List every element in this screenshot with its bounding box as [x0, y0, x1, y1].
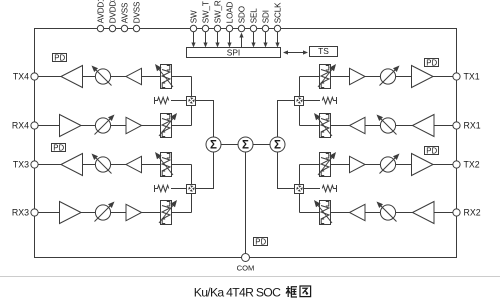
wire RX3 row [38, 212, 191, 214]
wire TX2 row [300, 164, 453, 166]
wire S2 to COM port [245, 152, 247, 254]
wire S1-S2 [221, 144, 238, 146]
svg-text:SPI: SPI [227, 48, 241, 58]
svg-text:Σ: Σ [242, 140, 249, 152]
svg-text:PD: PD [426, 59, 437, 68]
combiner TX3/RX3 [187, 185, 196, 194]
wire RX1 row [300, 125, 453, 127]
svg-text:TX1: TX1 [464, 72, 480, 82]
SPI pin SCLK [274, 25, 280, 31]
SPI pin SDO [238, 25, 244, 31]
caption CJK kuang [286, 286, 297, 297]
amplifier TX4 driver [126, 68, 142, 84]
phase shifter TX1 [320, 65, 331, 89]
wire TX4/RX4 to combiner [191, 77, 193, 126]
wire TX1/RX1 to combiner [299, 77, 301, 126]
wire TX3/RX3 to combiner [191, 165, 193, 213]
chip outline box [35, 29, 457, 258]
svg-text:DVDD33: DVDD33 [108, 0, 117, 23]
port TX3 [31, 161, 38, 168]
PD box TX2 [425, 147, 439, 155]
SPI pin SW_R [214, 25, 220, 31]
amplifier RX1 LNA [413, 115, 435, 137]
amplifier RX4 LNA [60, 115, 82, 137]
wire combiner to summer S1 lower [196, 152, 214, 189]
termination resistor TX2/RX2 [336, 185, 338, 192]
svg-text:DVSS: DVSS [132, 1, 141, 23]
svg-text:Σ: Σ [210, 140, 217, 152]
port COM [242, 254, 250, 262]
phase shifter RX2 [320, 201, 331, 225]
wire combiner to summer S3 lower [278, 152, 296, 189]
phase shifter RX4 [161, 114, 172, 138]
summer S2 [238, 137, 253, 152]
svg-text:RX1: RX1 [464, 121, 481, 131]
phase shifter RX3 [161, 201, 172, 225]
svg-text:LOAD: LOAD [225, 1, 234, 23]
svg-text:TS: TS [318, 46, 329, 56]
termination resistor TX4/RX4 [154, 97, 156, 104]
amplifier RX2 driver [350, 204, 366, 220]
PD box TX3 [52, 144, 66, 152]
SPI-TS bidirectional bus wire [287, 52, 304, 54]
svg-text:SDI: SDI [261, 10, 270, 23]
wire combiner to summer S3 upper [278, 101, 296, 138]
power pin DVDD33 [109, 25, 115, 31]
summer S3 [270, 137, 285, 152]
TS block [310, 47, 338, 57]
port RX3 [31, 209, 38, 216]
svg-text:SCLK: SCLK [273, 2, 282, 23]
svg-text:SW: SW [189, 10, 198, 23]
summer S1 [206, 137, 221, 152]
combiner TX4/RX4 [187, 97, 196, 106]
svg-text:AVSS: AVSS [120, 2, 129, 23]
amplifier RX3 LNA [60, 202, 82, 224]
port TX2 [453, 161, 460, 168]
wire TX2/RX2 to combiner [299, 165, 301, 213]
amplifier RX4 driver [126, 117, 142, 133]
SPI pin SW_T [202, 25, 208, 31]
amplifier TX3 driver [126, 156, 142, 172]
wire RX4 row [38, 125, 191, 127]
amplifier TX2 output PA [412, 154, 434, 176]
variable attenuator RX1 [380, 118, 395, 133]
wire S2-S3 [253, 144, 270, 146]
svg-text:PD: PD [426, 147, 437, 156]
variable attenuator RX4 [95, 118, 110, 133]
port RX2 [453, 209, 460, 216]
port RX1 [453, 122, 460, 129]
svg-text:SDO: SDO [237, 6, 246, 23]
svg-text:RX4: RX4 [12, 121, 29, 131]
power pin AVDD18 [97, 25, 103, 31]
SPI pin SEL [250, 25, 256, 31]
caption CJK tu [300, 286, 311, 297]
wire TX1 row [300, 76, 453, 78]
power pin AVSS [121, 25, 127, 31]
wire TX3 row [38, 164, 191, 166]
svg-text:PD: PD [53, 144, 64, 153]
svg-text:SW_R: SW_R [213, 0, 222, 23]
phase shifter TX2 [320, 153, 331, 177]
SPI block U1 [187, 48, 281, 58]
variable attenuator RX2 [380, 205, 395, 220]
PD box common [254, 238, 268, 246]
svg-text:SEL: SEL [249, 8, 258, 23]
PD box TX1 [425, 59, 439, 67]
amplifier TX3 output PA [61, 154, 83, 176]
svg-text:SW_T: SW_T [201, 1, 210, 23]
amplifier RX2 LNA [413, 202, 435, 224]
amplifier TX1 output PA [412, 66, 434, 88]
port RX4 [31, 122, 38, 129]
svg-text:TX3: TX3 [13, 160, 29, 170]
wire combiner to summer S1 upper [196, 101, 214, 138]
combiner TX2/RX2 [295, 185, 304, 194]
PD box TX4 [53, 54, 67, 62]
svg-text:Σ: Σ [274, 140, 281, 152]
amplifier RX1 driver [350, 117, 366, 133]
SPI pin LOAD [226, 25, 232, 31]
variable attenuator TX3 [95, 157, 110, 172]
svg-text:Ku/Ka 4T4R SOC: Ku/Ka 4T4R SOC [194, 286, 281, 300]
phase shifter TX4 [161, 65, 172, 89]
power pin DVSS [133, 25, 139, 31]
variable attenuator TX4 [95, 69, 110, 84]
svg-text:RX3: RX3 [12, 208, 29, 218]
wire RX2 row [300, 212, 453, 214]
SPI pin SW [190, 25, 196, 31]
port TX1 [453, 73, 460, 80]
SPI pin SDI [262, 25, 268, 31]
svg-text:TX2: TX2 [464, 160, 480, 170]
svg-text:PD: PD [54, 54, 65, 63]
phase shifter TX3 [161, 153, 172, 177]
svg-text:TX4: TX4 [13, 72, 29, 82]
svg-text:RX2: RX2 [464, 208, 481, 218]
termination resistor TX3/RX3 [154, 185, 156, 192]
wire TX4 row [38, 76, 191, 78]
amplifier TX1 driver [350, 68, 366, 84]
variable attenuator TX2 [380, 157, 395, 172]
amplifier TX2 driver [350, 156, 366, 172]
termination resistor TX1/RX1 [336, 97, 338, 104]
svg-text:AVDD18: AVDD18 [96, 0, 105, 23]
combiner TX1/RX1 [295, 97, 304, 106]
variable attenuator TX1 [380, 69, 395, 84]
svg-text:PD: PD [255, 238, 266, 247]
amplifier RX3 driver [126, 204, 142, 220]
separator line [0, 276, 500, 278]
amplifier TX4 output PA [61, 66, 83, 88]
phase shifter RX1 [320, 114, 331, 138]
variable attenuator RX3 [95, 205, 110, 220]
svg-text:COM: COM [237, 264, 255, 273]
port TX4 [31, 73, 38, 80]
